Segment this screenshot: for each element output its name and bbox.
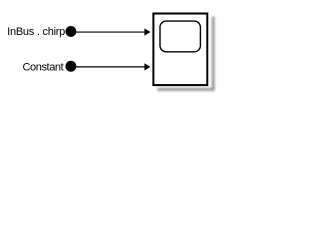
svg-text:Constant: Constant [22, 62, 63, 74]
wire 1 [76, 31, 145, 33]
scope screen icon [160, 21, 200, 52]
wire 2 [76, 66, 145, 68]
scope block drop shadow [157, 17, 213, 90]
arrowhead 1 [144, 28, 150, 35]
node dot 2 (Constant interface point) [65, 61, 76, 72]
scope block body [153, 14, 207, 86]
svg-text:InBus . chirp: InBus . chirp [7, 26, 65, 38]
node dot 1 (InBus.chirp interface point) [65, 26, 76, 37]
arrowhead 2 [144, 63, 150, 70]
